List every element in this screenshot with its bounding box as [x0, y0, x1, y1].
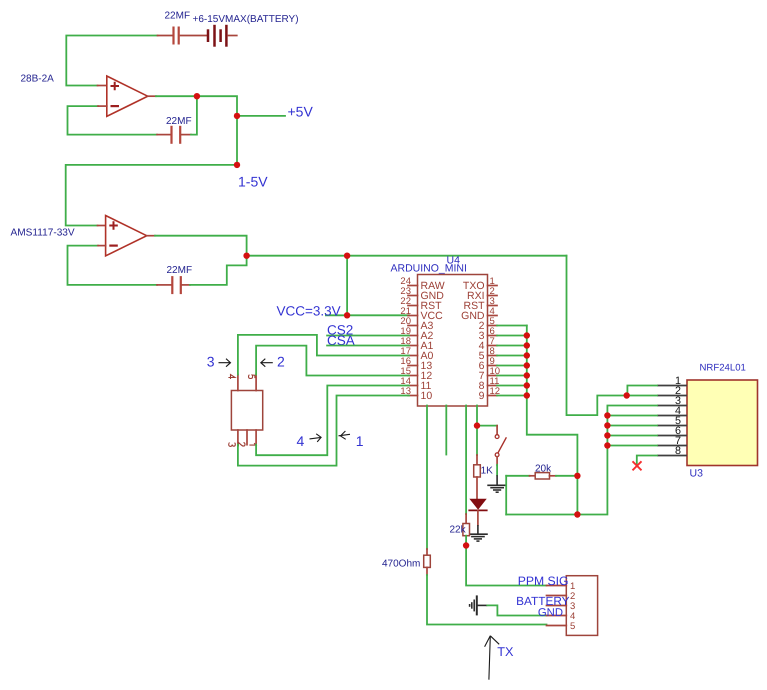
- U4 right pin 5 (2): [479, 316, 497, 332]
- wire U1 output to +5V rail: [156, 96, 237, 165]
- svg-text:4: 4: [297, 433, 305, 449]
- junction dot U3 pin2: [624, 392, 630, 398]
- U4 right pin 4 (GND): [461, 306, 497, 322]
- svg-text:TX: TX: [497, 645, 514, 659]
- wire junction to switch: [477, 425, 497, 427]
- U3 pin 2 lead: [657, 385, 687, 397]
- wire J1 pin1 to U4 pin 14 (11): [256, 386, 409, 456]
- wire U4 right pin 8 to bus: [497, 355, 527, 357]
- pin stub 20k right: [550, 475, 557, 477]
- pin stub U2 feedback cap right: [182, 284, 190, 286]
- pin stub 470Ohm bottom: [426, 567, 428, 575]
- annotation arrow left (2): [261, 359, 273, 367]
- svg-text:PPM SIG: PPM SIG: [518, 574, 569, 588]
- wire 1-5V rail to U2 + input: [66, 165, 237, 226]
- wire battery net to op-amp U1 + input: [66, 36, 157, 86]
- U4 left pin 16 (13): [400, 356, 432, 372]
- U3 pin 7 lead: [657, 435, 687, 447]
- connector J2 PPM body: [566, 576, 597, 636]
- U4 left pin 17 (A0): [400, 346, 433, 362]
- op-amp U1 (28B-2A): [107, 76, 148, 116]
- U4 right pin 11 (8): [479, 376, 500, 392]
- wire U4 right pin 9 to bus: [497, 365, 527, 367]
- wire U3 pin 8 no-connect stub: [637, 456, 657, 466]
- U4 right pin 1 (TXO): [463, 276, 497, 292]
- wire right bus vertical: [527, 326, 578, 515]
- resistor 20k: [535, 473, 549, 479]
- capacitor 22MF (U2 feedback): [172, 276, 181, 294]
- svg-text:8: 8: [675, 445, 681, 457]
- wire ground to PPM pin 4: [487, 605, 546, 615]
- ground symbol (LED): [468, 525, 488, 541]
- svg-text:AMS1117-33V: AMS1117-33V: [11, 228, 75, 239]
- wire U3 pin 6 to left bus: [607, 435, 657, 437]
- wire U3 pin 5 to left bus: [607, 425, 657, 427]
- junction dot at U1 output/cap: [194, 93, 200, 99]
- annotation arrow left (1): [339, 431, 351, 439]
- pin stub U1 output: [148, 95, 156, 97]
- U4 right pin 2 (RXI): [467, 286, 497, 302]
- annotation arrow right (4): [310, 434, 322, 442]
- U3 pin 5 lead: [657, 415, 687, 427]
- U4 right pin 9 (6): [479, 356, 497, 372]
- pin stub U1 - input: [98, 105, 107, 107]
- J2 pin 2: [547, 591, 576, 602]
- wire 22k top: [465, 514, 467, 524]
- U4 left pin 20 (A3): [400, 316, 433, 332]
- wire switch to ground: [496, 465, 498, 475]
- wire U2 output to 3.3V corner: [155, 236, 247, 256]
- svg-text:22MF: 22MF: [167, 265, 193, 276]
- capacitor 22MF (series with battery): [174, 27, 179, 45]
- wire U3 pin 3 / left bus: [506, 406, 657, 515]
- wire 20k left: [506, 475, 529, 477]
- svg-text:1-5V: 1-5V: [238, 174, 268, 190]
- wire 470Ohm bottom to PPM pin 5: [427, 575, 547, 625]
- U4 right pin 7 (4): [479, 336, 497, 352]
- pin stub U2 feedback cap left: [157, 284, 171, 286]
- svg-text:10: 10: [421, 390, 433, 402]
- annotation arrow right (3): [219, 359, 231, 367]
- U3 pin 3 lead: [657, 395, 687, 407]
- junction dot +5V branch: [234, 113, 240, 119]
- svg-text:20k: 20k: [535, 464, 552, 475]
- J2 pin 4: [547, 611, 576, 622]
- U3 pin 8 lead: [657, 445, 687, 457]
- U3 pin 6 lead: [657, 425, 687, 437]
- junction dot PPM SIG: [463, 542, 469, 548]
- U3 pin 1 lead: [657, 375, 687, 387]
- TX arrow: [485, 636, 500, 680]
- wire U4 right pin 12 to bus: [497, 395, 527, 397]
- pin stub feedback cap left: [157, 134, 170, 136]
- IC U3 NRF24L01 body: [687, 380, 758, 466]
- wire J1 pin5 to U4 pin 15 (12): [256, 346, 409, 376]
- net stub CS2 to U4 pin 19 (A2): [327, 335, 409, 337]
- wire U4 right pin 11 to bus: [497, 385, 527, 387]
- battery +6-15VMAX(BATTERY): [208, 25, 237, 47]
- junction dot U3 bus pin 7: [604, 442, 610, 448]
- pin stub U1 + input: [98, 85, 107, 87]
- wire VCC to U4 pin 21: [347, 314, 409, 316]
- svg-text:9: 9: [479, 390, 485, 402]
- U4 left pin 13 (10): [400, 386, 432, 402]
- wire U4 right pin 5 to bus: [497, 325, 527, 327]
- resistor 22k: [463, 524, 470, 536]
- pin stub battery cap left: [158, 35, 173, 37]
- junction dot bus row 7: [524, 342, 530, 348]
- net label stub VCC=3.3V: [326, 314, 347, 316]
- junction dot bus row 11: [524, 382, 530, 388]
- U3 pin 4 lead: [657, 405, 687, 417]
- svg-text:5: 5: [570, 621, 575, 632]
- wire U4 right pin 7 to bus: [497, 345, 527, 347]
- U4 right pin 3 (RST): [464, 296, 498, 312]
- wire 3.3V rail: [247, 255, 567, 257]
- junction dot bus row 8: [524, 352, 530, 358]
- svg-text:GND: GND: [538, 607, 563, 619]
- svg-text:28B-2A: 28B-2A: [21, 74, 55, 85]
- svg-text:470Ohm: 470Ohm: [382, 559, 420, 570]
- svg-text:22k: 22k: [450, 525, 467, 536]
- svg-text:+5V: +5V: [288, 104, 314, 120]
- junction dot bus row 12: [524, 392, 530, 398]
- net label stub +5V: [237, 115, 285, 117]
- U4 right pin 8 (5): [479, 346, 497, 362]
- J2 pin 3: [547, 601, 576, 612]
- junction dot 3.3V rail at VCC branch: [344, 253, 350, 259]
- resistor 470Ohm: [424, 555, 431, 567]
- svg-text:1: 1: [356, 433, 364, 449]
- U4 right pin 6 (3): [479, 326, 497, 342]
- wire 22k bottom to junction: [465, 536, 467, 543]
- wire U4 bottom pin c to 22k: [465, 406, 467, 515]
- wire 20k loop left side: [505, 476, 507, 515]
- wire J1 pin3 to U4 pin 13 (10): [238, 396, 409, 466]
- pin stub feedback cap right: [182, 134, 192, 136]
- junction dot bus row 9: [524, 362, 530, 368]
- LED D1: [468, 499, 487, 510]
- junction dot 1-5V corner: [234, 162, 240, 168]
- U4 left pin 19 (A2): [400, 326, 433, 342]
- svg-text:22MF: 22MF: [166, 116, 192, 127]
- resistor 1K: [474, 465, 481, 477]
- junction dot U3 bus pin 6: [604, 432, 610, 438]
- J1 pin 5 (top right): [249, 375, 257, 391]
- wire 1K to LED: [476, 477, 478, 499]
- op-amp U2 (AMS1117-33V): [106, 216, 147, 256]
- svg-text:1K: 1K: [481, 466, 494, 477]
- no-connect X mark: [633, 461, 642, 470]
- wire U4 bottom pin d to switch/1K junction: [476, 406, 478, 456]
- ground symbol (switch): [487, 475, 507, 492]
- wire VCC branch down to U4 pin 21: [346, 256, 348, 316]
- J2 pin 1: [547, 581, 576, 592]
- pin stub U2 output: [147, 235, 155, 237]
- U4 left pin 23 (GND): [400, 286, 444, 302]
- junction dot bus row 10: [524, 372, 530, 378]
- U4 left pin 24 (RAW): [400, 276, 444, 292]
- U4 left pin 14 (11): [400, 376, 431, 392]
- junction dot 20k right: [574, 473, 580, 479]
- wire U4 right pin 6 to bus: [497, 335, 527, 337]
- svg-text:BATTERY: BATTERY: [516, 594, 569, 608]
- wire junction to PPM SIG pin 1: [466, 543, 546, 586]
- svg-text:+6-15VMAX(BATTERY): +6-15VMAX(BATTERY): [193, 14, 299, 25]
- wire U4 bottom pin b (dangling): [445, 406, 447, 455]
- ground symbol (PPM, left-pointing): [470, 595, 488, 615]
- 5-pin module J1 body: [231, 391, 262, 431]
- J1 pin 3 (bottom left): [229, 430, 238, 446]
- wire U3 pin 1 jog to pin 2 net: [627, 386, 657, 396]
- svg-text:2: 2: [277, 353, 285, 369]
- wire U2 feedback cap to output junction: [190, 257, 247, 285]
- wire U1 - input feedback: [68, 106, 158, 135]
- wire U3 pin 4 to left bus: [607, 415, 657, 417]
- U4 right pin 12 (9): [479, 386, 500, 402]
- U4 left pin 15 (12): [400, 366, 432, 382]
- wire 470Ohm top: [426, 549, 428, 555]
- junction dot 3.3V corner: [243, 253, 249, 259]
- U4 left pin 21 (VCC): [400, 306, 443, 322]
- wire cap to U1 output junction: [191, 98, 197, 135]
- J1 pin 2 (bottom middle): [238, 430, 247, 446]
- wire U4 bottom pin a to 470Ohm: [426, 406, 428, 550]
- svg-text:VCC=3.3V: VCC=3.3V: [277, 304, 341, 319]
- wire LED cathode to ground: [477, 510, 479, 525]
- U4 left pin 22 (RST): [400, 296, 442, 312]
- svg-text:NRF24L01: NRF24L01: [700, 363, 746, 374]
- switch S1: [495, 426, 506, 466]
- wire 1K top: [476, 455, 478, 465]
- junction dot bus row 6: [524, 332, 530, 338]
- wire U3 pin 7 to left bus: [607, 445, 657, 447]
- J2 pin 5: [547, 621, 576, 632]
- pin stub U2 + input: [98, 225, 106, 227]
- U4 right pin 10 (7): [479, 366, 500, 382]
- svg-text:3: 3: [207, 353, 215, 369]
- svg-text:ARDUINO_MINI: ARDUINO_MINI: [391, 263, 467, 275]
- U4 left pin 18 (A1): [400, 336, 433, 352]
- pin stub U2 - input: [98, 245, 106, 247]
- svg-text:22MF: 22MF: [165, 11, 191, 22]
- wire 3.3V net to U3 pin 2: [567, 256, 658, 415]
- net stub CSA to U4 pin 18 (A1): [327, 345, 409, 347]
- IC U4 ARDUINO_MINI body: [418, 275, 488, 407]
- capacitor 22MF (U1 feedback): [172, 126, 181, 144]
- junction dot bottom bus: [574, 511, 580, 517]
- wire U4 right pin 10 to bus: [497, 375, 527, 377]
- pin stub 20k left: [530, 475, 536, 477]
- wire J1 pin4 to U4 pin 17 (A0): [238, 335, 409, 375]
- J1 pin 4 (top left): [228, 375, 238, 391]
- junction dot switch branch: [474, 422, 480, 428]
- svg-text:U3: U3: [690, 468, 704, 480]
- junction dot U3 bus pin 5: [604, 422, 610, 428]
- junction dot VCC label: [344, 312, 350, 318]
- junction dot U3 bus pin 4: [604, 412, 610, 418]
- wire cap to battery: [181, 35, 207, 37]
- wire 20k right to bus: [556, 475, 577, 477]
- wire U2 - input feedback: [68, 246, 158, 285]
- J1 pin 1 (bottom right): [249, 430, 256, 445]
